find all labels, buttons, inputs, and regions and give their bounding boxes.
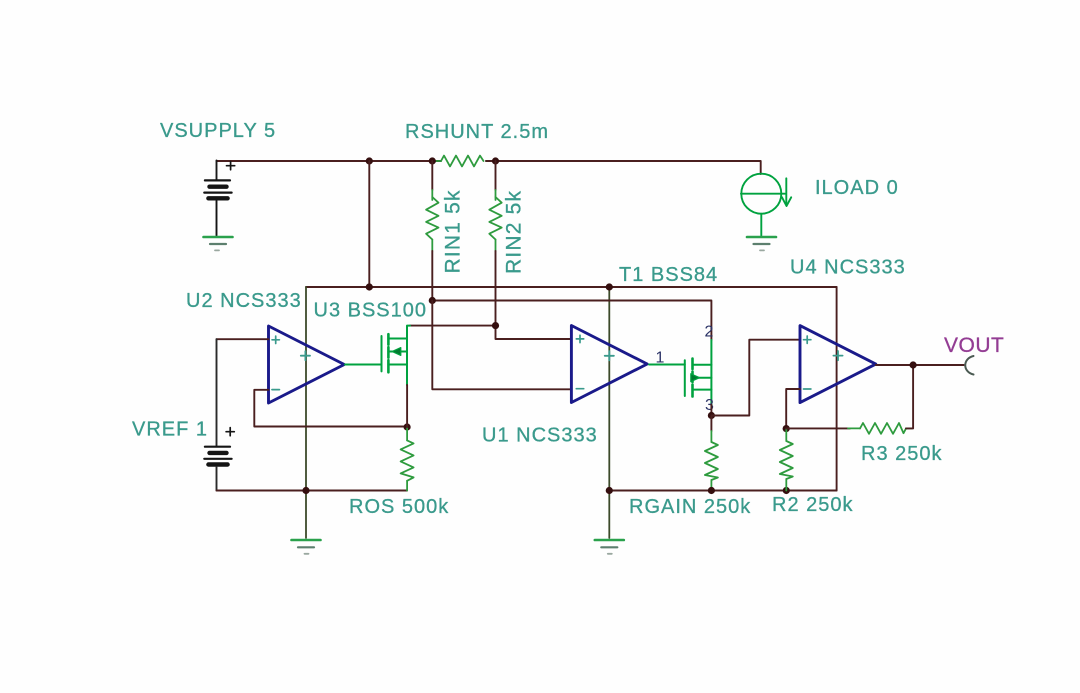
node RIN1 bottom — [429, 297, 436, 304]
wire RIN1 node to T1 drain — [432, 301, 711, 341]
wire U3 drain to RIN2 node — [410, 325, 496, 327]
battery VREF — [204, 339, 234, 490]
svg-text:ILOAD 0: ILOAD 0 — [815, 177, 899, 199]
svg-text:U1 NCS333: U1 NCS333 — [482, 425, 598, 447]
transistor U3 (BSS100 NMOS) — [345, 326, 410, 385]
wire bottom rail — [609, 490, 836, 492]
transistor T1 (BSS84 PMOS) — [685, 340, 712, 405]
node U4 feedback — [783, 425, 790, 432]
ground (under ILOAD) — [747, 237, 776, 250]
wire U2 non-inverting input — [217, 338, 269, 340]
wire U2 feedback — [254, 390, 407, 427]
svg-text:VOUT: VOUT — [944, 334, 1004, 357]
wire top rail right — [486, 161, 761, 174]
svg-text:T1 BSS84: T1 BSS84 — [619, 264, 718, 286]
svg-text:2: 2 — [705, 324, 714, 341]
op-amp U1 — [571, 326, 647, 403]
node VREF ground — [302, 487, 309, 494]
resistor RGAIN — [705, 416, 718, 491]
node bottom rail RGAIN — [708, 487, 715, 494]
wire supply rail — [306, 286, 837, 288]
current source ILOAD — [741, 174, 791, 236]
svg-text:1: 1 — [656, 350, 665, 367]
op-amp U2 — [269, 326, 345, 403]
svg-text:RIN1 5k: RIN1 5k — [442, 189, 465, 273]
svg-text:U3 BSS100: U3 BSS100 — [314, 300, 428, 322]
wire U1 power line to ground — [608, 287, 610, 538]
wire U4 inverting input — [786, 389, 800, 429]
resistor RIN1 — [426, 161, 438, 301]
wire feedback node to R3 — [786, 427, 850, 429]
svg-text:R2 250k: R2 250k — [772, 494, 854, 516]
svg-text:VSUPPLY 5: VSUPPLY 5 — [160, 120, 276, 142]
svg-text:RSHUNT 2.5m: RSHUNT 2.5m — [405, 121, 549, 143]
wire R3 to output node — [906, 365, 913, 428]
resistor RIN2 — [489, 161, 501, 326]
battery VSUPPLY — [204, 162, 234, 236]
wire top rail drop to supply rail — [368, 161, 370, 287]
resistor ROS — [401, 428, 414, 491]
wire T1 source to U4 non-inverting input — [711, 340, 800, 416]
svg-text:VREF 1: VREF 1 — [132, 419, 208, 441]
node bottom rail R2 — [783, 487, 790, 494]
node U4 output — [910, 361, 917, 368]
wire U4 output to VOUT — [876, 364, 964, 366]
node supply rail at drop — [366, 283, 373, 290]
node top rail C — [492, 157, 499, 164]
ground (under VSUPPLY) — [204, 237, 233, 250]
wire RIN2 node to U1 non-inverting input — [496, 326, 572, 339]
node bottom rail U1 — [606, 487, 613, 494]
resistor R2 — [780, 429, 793, 491]
svg-text:RGAIN 250k: RGAIN 250k — [629, 496, 751, 518]
wire U4 power line — [836, 287, 838, 491]
resistor R3 — [848, 423, 912, 434]
wire U1 output to T1 gate — [649, 364, 685, 366]
node T1 source — [708, 412, 715, 419]
node top rail A — [366, 157, 373, 164]
svg-text:RIN2 5k: RIN2 5k — [503, 190, 526, 274]
svg-text:3: 3 — [705, 397, 714, 414]
node top rail B — [429, 157, 436, 164]
svg-text:ROS 500k: ROS 500k — [349, 496, 449, 518]
svg-text:U2 NCS333: U2 NCS333 — [186, 290, 302, 312]
wire RIN1 node to U1 inverting input — [432, 301, 571, 390]
wire U3 source to feedback node — [406, 385, 408, 427]
ground (under U1) — [595, 540, 624, 554]
wire top rail left — [217, 160, 442, 162]
wire VREF minus to ROS bottom — [217, 490, 408, 492]
op-amp U4 — [800, 326, 876, 403]
svg-text:U4 NCS333: U4 NCS333 — [790, 257, 906, 279]
resistor RSHUNT — [434, 156, 494, 167]
wire U2 power line to ground — [305, 287, 307, 538]
svg-text:R3 250k: R3 250k — [861, 443, 943, 465]
node U2 feedback / ROS / U3 source — [404, 423, 411, 430]
ground (under U2) — [292, 540, 321, 554]
terminal VOUT — [965, 356, 973, 375]
node RIN2 bottom — [492, 322, 499, 329]
node supply rail at U1 — [606, 283, 613, 290]
wire T1 source down — [710, 405, 712, 416]
